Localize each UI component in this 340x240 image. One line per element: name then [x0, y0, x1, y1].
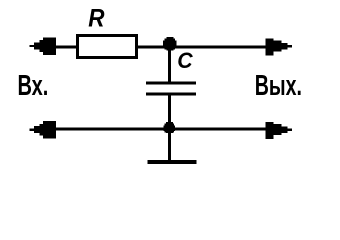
svg-text:R: R: [88, 4, 104, 32]
svg-text:C: C: [177, 47, 194, 73]
svg-text:Вых.: Вых.: [255, 71, 302, 103]
svg-text:Вх.: Вх.: [18, 69, 49, 102]
